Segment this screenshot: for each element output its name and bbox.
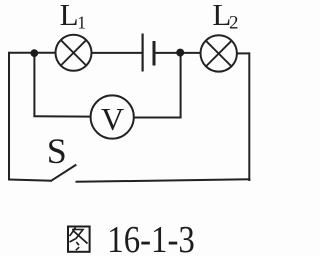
wire bottom-right segment bbox=[76, 179, 251, 182]
wire bottom-left segment bbox=[9, 180, 52, 181]
wire L1 to battery bbox=[92, 52, 142, 54]
wire right vertical bbox=[248, 52, 250, 181]
wire left vertical bbox=[8, 52, 10, 181]
node B junction dot bbox=[176, 49, 184, 57]
wire L2 to top-right corner bbox=[237, 52, 249, 54]
wire voltmeter branch left horizontal bbox=[33, 115, 90, 117]
svg-text:S: S bbox=[47, 131, 67, 171]
node A junction dot bbox=[30, 49, 38, 57]
svg-text:16-1-3: 16-1-3 bbox=[107, 219, 195, 256]
wire battery to L2 bbox=[156, 52, 201, 54]
voltmeter U1 circle bbox=[91, 95, 134, 138]
wire voltmeter branch left vertical bbox=[33, 53, 35, 116]
lamp L1 bbox=[56, 35, 92, 71]
wire voltmeter branch right vertical bbox=[180, 53, 182, 119]
svg-text:L: L bbox=[60, 0, 79, 32]
wire voltmeter branch right horizontal bbox=[134, 117, 181, 119]
switch S blade bbox=[51, 165, 77, 182]
label L2 bbox=[212, 0, 238, 33]
svg-text:1: 1 bbox=[77, 12, 86, 32]
svg-text:2: 2 bbox=[229, 12, 239, 33]
lamp L2 bbox=[201, 35, 237, 71]
battery cell bbox=[143, 34, 154, 72]
svg-text:V: V bbox=[101, 101, 124, 137]
caption character tu (figure) bbox=[68, 227, 90, 252]
label L1 bbox=[60, 0, 86, 32]
wire top-left segment bbox=[9, 52, 56, 54]
